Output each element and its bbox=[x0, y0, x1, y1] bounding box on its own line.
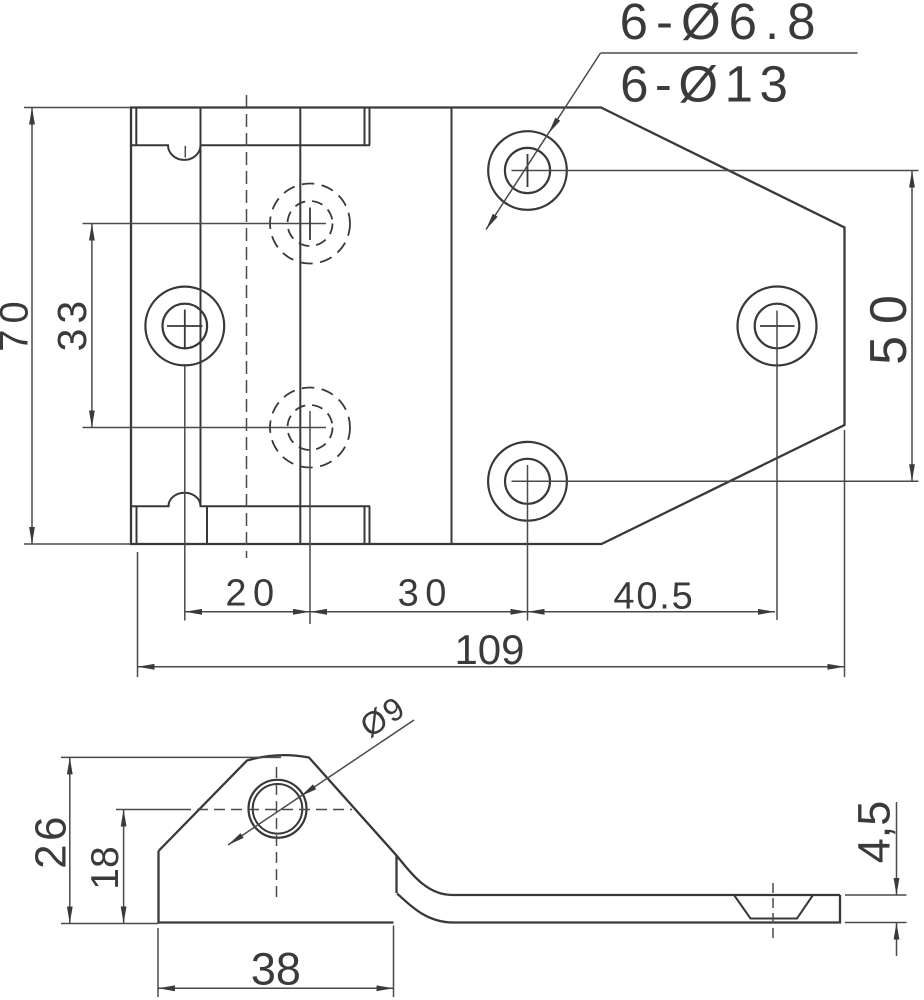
svg-text:20: 20 bbox=[225, 572, 280, 614]
dim 70 arrows bbox=[29, 108, 35, 125]
countersink dashed centerline bbox=[772, 883, 774, 939]
dim 109 extension lines bbox=[137, 552, 139, 677]
svg-text:18: 18 bbox=[84, 846, 127, 889]
bottom knuckle strip tick mid bbox=[206, 506, 208, 544]
hinge axis dashed centerline bbox=[246, 95, 248, 558]
dim 26 extension lines bbox=[61, 756, 281, 758]
svg-text:6-Ø13: 6-Ø13 bbox=[620, 56, 794, 113]
svg-text:50: 50 bbox=[860, 283, 918, 365]
top knuckle strip bottom line with notch bbox=[131, 145, 370, 160]
hole column extension line (20 dim left) bbox=[184, 364, 186, 621]
plate bottom hole crosshair/50 bottom extension bbox=[512, 480, 919, 482]
d9 leader line bbox=[228, 720, 414, 845]
hinge plate outline (top view) bbox=[131, 108, 845, 545]
leaf second fold line bbox=[299, 108, 301, 545]
svg-text:6-Ø6.8: 6-Ø6.8 bbox=[620, 0, 824, 50]
dim 26 line bbox=[69, 757, 71, 923]
leader line to top hole bbox=[486, 53, 601, 230]
dim 33 line bbox=[91, 224, 93, 428]
svg-text:38: 38 bbox=[251, 944, 301, 995]
pivot hole vertical dashed centerline bbox=[276, 767, 278, 899]
svg-text:109: 109 bbox=[454, 626, 524, 673]
svg-text:4,5: 4,5 bbox=[849, 801, 900, 864]
dim 40.5 arrows bbox=[528, 609, 545, 615]
side view arm bottom edge and end bbox=[397, 894, 840, 923]
dim 4,5 extension lines bbox=[845, 894, 907, 896]
leaf fold line bbox=[200, 108, 202, 507]
dim 4,5 arrows bbox=[894, 878, 900, 895]
side view arm top edge bbox=[397, 856, 841, 896]
plate top hole circles bbox=[488, 131, 567, 210]
dim 18 line bbox=[123, 810, 125, 924]
top knuckle strip ticks right bbox=[364, 108, 366, 145]
dim 20 line bbox=[185, 611, 310, 613]
notch center tick bbox=[184, 146, 186, 158]
svg-text:33: 33 bbox=[49, 296, 95, 352]
side view countersink section bbox=[734, 895, 813, 919]
dim 109 arrows bbox=[138, 664, 155, 670]
leaf hole circles bbox=[145, 287, 224, 366]
upper hidden hole dashed circles bbox=[270, 184, 350, 264]
leader arrows bbox=[549, 118, 561, 134]
dim 109 line bbox=[138, 666, 845, 668]
lower hidden hole crosshair/33 bottom extension bbox=[83, 427, 327, 429]
upper hidden hole crosshair/33 top extension bbox=[83, 223, 327, 225]
dim 40.5 line bbox=[528, 611, 776, 613]
side view pivot hole circles bbox=[249, 780, 307, 838]
svg-text:40.5: 40.5 bbox=[613, 576, 694, 618]
bottom knuckle strip ticks right bbox=[364, 506, 366, 544]
bottom knuckle strip tick left bbox=[136, 506, 138, 544]
plate right hole circles bbox=[738, 287, 817, 366]
leaf hole crosshair bbox=[167, 325, 203, 327]
plate right hole crosshair bbox=[760, 325, 795, 327]
dim 33 arrows bbox=[89, 224, 95, 241]
dim 70 extension lines bbox=[24, 107, 131, 109]
dim 38 extension lines bbox=[157, 928, 159, 997]
dim 18 arrows bbox=[121, 810, 127, 827]
leaf-plate boundary line bbox=[451, 108, 453, 545]
dim 20 arrows bbox=[185, 609, 202, 615]
dim 38 line bbox=[158, 987, 394, 989]
dim 30 line bbox=[310, 611, 528, 613]
dim 50 arrows bbox=[909, 171, 915, 188]
plate bottom hole circles bbox=[488, 442, 567, 521]
bottom knuckle strip top line with bump bbox=[131, 493, 370, 507]
dim 38 arrows bbox=[158, 985, 175, 991]
dim 30 arrows bbox=[310, 609, 327, 615]
lower hidden hole dashed circles bbox=[270, 388, 350, 468]
pivot hole horizontal centerline bbox=[116, 809, 180, 811]
svg-text:70: 70 bbox=[0, 295, 37, 352]
svg-text:26: 26 bbox=[27, 813, 76, 869]
plate top hole crosshair/50 top extension bbox=[512, 170, 919, 172]
dim 50 line bbox=[911, 171, 913, 482]
d9 leader arrows bbox=[301, 784, 317, 796]
dim 4,5 line segments bbox=[896, 802, 898, 895]
dim 70 line bbox=[31, 108, 33, 545]
top knuckle strip tick left bbox=[135, 108, 137, 145]
svg-text:30: 30 bbox=[398, 572, 453, 614]
side view bracket outline bbox=[159, 755, 397, 922]
dim 26 arrows bbox=[67, 757, 73, 774]
